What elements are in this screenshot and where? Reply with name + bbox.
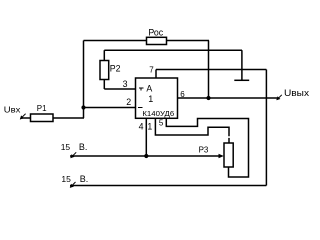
wire pin7 to +15V [156,69,266,71]
wire right vertical +15V [265,70,267,186]
resistor Roc [147,37,167,44]
terminal rail1 arrow [71,152,76,157]
op-amp U1 box [136,78,178,118]
arrowhead R3 wiper [219,154,224,158]
svg-text:4: 4 [139,122,144,132]
terminal rail2 arrow [70,182,75,187]
svg-text:Р3: Р3 [199,146,209,155]
svg-text:Р1: Р1 [37,104,47,113]
svg-text:6: 6 [180,90,185,99]
op-amp plus input mark [139,88,143,91]
wire pin7 stem [155,70,157,79]
svg-text:15: 15 [61,142,71,152]
resistor R1 [31,114,54,122]
svg-text:А: А [146,83,152,93]
wire Roc right vertical [208,41,210,99]
wire Roc top left [84,40,147,42]
wire left vertical feedback [83,41,85,119]
wire pin3 horizontal [104,88,135,90]
wire R1 to left vertical [53,117,84,119]
svg-text:К140УД6: К140УД6 [142,109,174,118]
svg-text:7: 7 [149,66,154,75]
terminal output arrowhead [276,96,280,100]
svg-text:15: 15 [61,174,71,184]
svg-text:Р2: Р2 [110,63,121,73]
node junction pin2 [81,105,85,109]
terminal rail1 arrowhead [70,154,74,158]
terminal input arrow [20,114,25,119]
ground bar [234,79,249,81]
svg-text:В.: В. [80,174,89,184]
wire pin5 route [166,118,248,177]
svg-text:Рос: Рос [148,28,163,38]
wire rail2 15V [70,185,266,187]
resistor R3 trimmer [224,143,233,167]
svg-text:Uвых: Uвых [284,88,310,98]
terminal rail2 arrowhead [70,184,74,188]
svg-text:2: 2 [126,97,131,107]
wire R2 top stem [103,50,105,60]
wire Roc top right [167,40,210,42]
resistor R2 [100,61,109,80]
svg-text:Uвх: Uвх [4,105,21,115]
wire pin4 stem [145,118,147,156]
wire input to R1 [22,117,31,119]
svg-text:1: 1 [148,94,153,104]
wire R2 bottom stem [103,80,105,90]
op-amp minus input mark [138,106,142,108]
terminal output arrow [277,95,282,100]
wire ground top horizontal [104,49,242,51]
wire pin6 output [178,97,279,99]
ground stem [241,50,243,80]
svg-text:3: 3 [123,79,128,89]
wire pin1 route [155,118,229,143]
svg-text:5: 5 [159,119,164,128]
node junction pin4 rail [144,154,148,158]
svg-text:В.: В. [79,142,88,152]
wire pin2 horizontal [84,107,136,109]
terminal input arrowhead [20,115,24,119]
svg-text:1: 1 [147,122,152,132]
wire rail1 15V [70,155,222,157]
node junction output [206,96,210,100]
